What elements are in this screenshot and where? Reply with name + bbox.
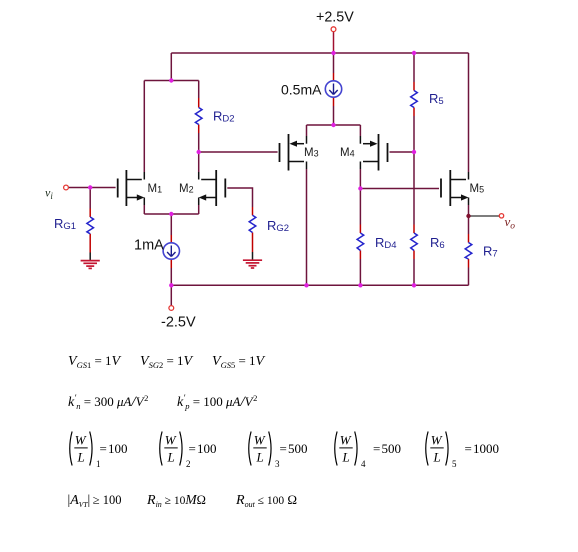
svg-text:VSG2 = 1V: VSG2 = 1V — [140, 353, 194, 370]
wire top rail +2.5V net — [171, 52, 468, 54]
resistor RD2 — [195, 108, 202, 125]
wire vo output gray — [469, 215, 500, 217]
svg-text:Rout ≤ 100 Ω: Rout ≤ 100 Ω — [235, 492, 297, 509]
ground (RG2) — [243, 260, 262, 268]
wire R7 pin stub bottom — [468, 259, 470, 268]
wire RD4 pin stub bottom — [359, 251, 361, 260]
node R5 top rail junction — [412, 51, 416, 55]
wire drain bus M1-RD2 — [144, 80, 198, 82]
node vo output junction — [466, 214, 470, 218]
svg-text:=: = — [280, 441, 287, 456]
wire RD2 node to M3 gate — [199, 151, 278, 153]
wire M2 source to bus — [198, 205, 200, 214]
node M3/M4 common source junction — [331, 123, 335, 127]
svg-text:=: = — [189, 441, 196, 456]
wire M4 source corner — [359, 125, 361, 136]
svg-text:W: W — [340, 433, 352, 448]
svg-text:2: 2 — [186, 459, 191, 469]
wire M3 drain vertical to bottom rail — [306, 169, 308, 285]
node +2.5V supply junction — [331, 51, 335, 55]
wire RD2 branch upper — [198, 81, 200, 99]
resistor RG1 — [87, 217, 94, 234]
svg-text:500: 500 — [288, 441, 308, 456]
node RD4 bottom rail junction — [358, 283, 362, 287]
svg-text:1: 1 — [96, 459, 101, 469]
wire 0.5mA source to M3/M4 bus — [333, 97, 335, 106]
wire R5 pin stub bottom — [413, 108, 415, 117]
svg-text:5: 5 — [452, 459, 457, 469]
wire RD2 pin stub top — [198, 98, 200, 108]
node M4 drain RD4 junction — [358, 186, 362, 190]
wire RG2 to ground — [252, 233, 254, 253]
svg-text:1000: 1000 — [473, 441, 499, 456]
svg-text:500: 500 — [382, 441, 402, 456]
wire 1mA source to bottom rail — [170, 259, 172, 268]
wire R5 pin stub top — [413, 82, 415, 91]
transistor M2 — [216, 170, 225, 206]
svg-text:=: = — [465, 441, 472, 456]
svg-text:L: L — [256, 450, 264, 465]
wire RG1 ground stem black — [89, 253, 91, 261]
transistor M4 — [379, 134, 388, 171]
wire M4 drain node to M5 gate — [360, 188, 439, 190]
svg-text:|AVT| ≥ 100: |AVT| ≥ 100 — [68, 492, 122, 509]
node R6 bottom rail junction — [412, 283, 416, 287]
wire M4 drain to RD4 node — [359, 169, 361, 189]
svg-text:k′p = 100 μA/V2: k′p = 100 μA/V2 — [177, 393, 257, 411]
terminal -2.5V — [169, 306, 174, 311]
wire RG1 branch from vi node — [89, 188, 91, 209]
svg-text:100: 100 — [197, 441, 217, 456]
wire +2.5V terminal drop — [333, 32, 335, 53]
wire RG2 ground stem black — [252, 252, 254, 260]
svg-text:W: W — [165, 433, 177, 448]
svg-text:3: 3 — [275, 459, 280, 469]
resistor R6 — [411, 233, 418, 251]
svg-text:4: 4 — [361, 459, 366, 469]
wire source bus to 1mA source — [170, 214, 172, 235]
transistor M5 — [441, 170, 450, 206]
eq line 3: (W/L) ratios — [70, 432, 499, 470]
wire RG1 to ground — [89, 234, 91, 253]
wire RD4 from M4 drain node — [359, 189, 361, 225]
node M3 drain bottom rail junction — [304, 283, 308, 287]
svg-text:=: = — [373, 441, 380, 456]
wire RG1 pin stub top — [89, 209, 91, 218]
wire M1-M2 source bus — [144, 213, 198, 215]
terminal vo — [499, 214, 503, 218]
wire M2 gate to RG2 — [227, 188, 252, 207]
current source I1 0.5mA — [325, 81, 341, 97]
node vi input junction — [88, 185, 92, 189]
svg-text:k′n = 300 μA/V2: k′n = 300 μA/V2 — [68, 393, 148, 411]
wire M3-M4 source bus — [307, 124, 361, 126]
wire M3 source corner — [306, 125, 308, 136]
wire R5 branch from top rail — [413, 53, 415, 82]
wire M5 drain to top rail — [468, 53, 470, 172]
svg-text:Rin ≥ 10MΩ: Rin ≥ 10MΩ — [146, 492, 206, 509]
wire R6 pin stub top — [413, 225, 415, 234]
wire RG2 pin stub top — [252, 207, 254, 215]
svg-text:L: L — [342, 450, 350, 465]
wire RD4 pin stub top — [359, 225, 361, 234]
wire RD4 to bottom rail — [359, 259, 361, 285]
transistor M1 — [118, 170, 127, 206]
wire M1 source to bus — [143, 205, 145, 214]
wire RD2 to M2 drain — [198, 133, 200, 172]
resistor RG2 — [249, 215, 256, 232]
wire -2.5V terminal drop — [170, 285, 172, 305]
wire top-left drop to drain bus — [170, 53, 172, 81]
ground (RG1) — [81, 261, 100, 269]
wire R6 pin stub bottom — [413, 251, 415, 260]
node M1 drain bus junction — [169, 78, 173, 82]
resistor RD4 — [357, 233, 364, 251]
node RD2/M2 drain to M3 gate junction — [197, 150, 201, 154]
wire R7 pin stub top — [468, 234, 470, 243]
wire RD2 pin stub bottom — [198, 125, 200, 134]
wire vi terminal to M1 gate — [69, 187, 116, 189]
wire bottom rail -2.5V net — [171, 284, 468, 286]
svg-text:W: W — [75, 433, 87, 448]
node M1/M2 common source junction — [169, 212, 173, 216]
svg-text:VGS1 = 1V: VGS1 = 1V — [68, 353, 122, 370]
svg-text:W: W — [431, 433, 443, 448]
wire R5 to M4 gate node — [413, 116, 415, 152]
node 1mA bottom rail junction — [169, 283, 173, 287]
resistor R5 — [411, 91, 418, 108]
wire vo node to R7 — [468, 216, 470, 234]
wire node to R6 — [413, 152, 415, 225]
svg-text:W: W — [254, 433, 266, 448]
transistor M3 — [280, 134, 289, 171]
svg-text:L: L — [77, 450, 85, 465]
svg-text:L: L — [167, 450, 175, 465]
svg-text:=: = — [100, 441, 107, 456]
wire supply to 0.5mA source — [333, 53, 335, 73]
wire R7 to bottom rail — [468, 268, 470, 286]
terminal vi — [64, 185, 69, 190]
wire R6 to bottom rail — [413, 259, 415, 285]
svg-text:L: L — [433, 450, 441, 465]
svg-text:VGS5 = 1V: VGS5 = 1V — [212, 353, 266, 370]
wire M1 drain vertical — [143, 81, 145, 173]
terminal +2.5V — [331, 27, 336, 32]
node M4 gate R5/R6 junction — [412, 150, 416, 154]
svg-text:100: 100 — [108, 441, 128, 456]
resistor R7 — [465, 243, 472, 260]
current source I2 1mA — [163, 243, 179, 259]
wire M4 gate to R5/R6 node — [390, 151, 415, 153]
wire M5 source to vo node — [468, 205, 470, 216]
